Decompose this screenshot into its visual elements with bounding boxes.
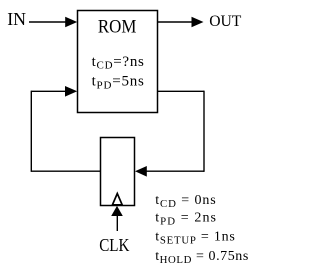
svg-text:OUT: OUT (209, 13, 241, 30)
svg-text:CLK: CLK (99, 235, 129, 255)
svg-text:ROM: ROM (98, 18, 136, 38)
svg-text:IN: IN (7, 9, 26, 29)
